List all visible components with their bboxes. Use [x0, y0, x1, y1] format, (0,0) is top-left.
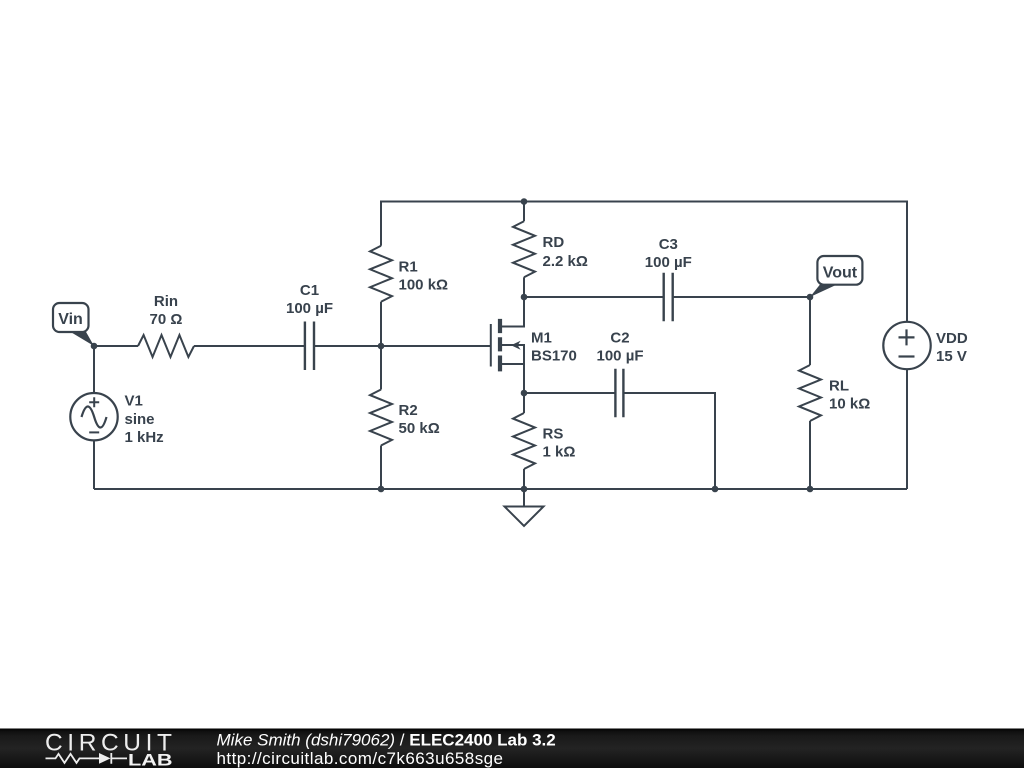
node gate — [378, 343, 385, 350]
wire R2 bottom — [380, 446, 382, 490]
svg-text:R1: R1 — [399, 258, 418, 275]
svg-text:LAB: LAB — [128, 751, 173, 768]
wire V1 bottom — [93, 440, 95, 489]
svg-text:70 Ω: 70 Ω — [150, 311, 183, 328]
capacitor C1 — [305, 322, 314, 371]
wire VDD bottom — [906, 369, 908, 489]
svg-text:15 V: 15 V — [936, 348, 967, 365]
svg-text:1 kHz: 1 kHz — [125, 429, 164, 446]
resistor Rin — [138, 335, 194, 357]
svg-text:100 kΩ: 100 kΩ — [399, 276, 449, 293]
node C2 bottom — [712, 486, 719, 493]
svg-text:2.2 kΩ: 2.2 kΩ — [543, 253, 588, 270]
wire RD top — [523, 202, 525, 222]
svg-text:Vout: Vout — [823, 265, 858, 282]
wire R1 bottom — [380, 302, 382, 346]
wire Rin to C1 — [194, 345, 305, 347]
flag Vin — [53, 303, 94, 346]
wire C2 right — [623, 393, 715, 489]
wire input row left — [94, 345, 138, 347]
svg-text:sine: sine — [125, 411, 155, 428]
wire C2 left — [524, 392, 615, 394]
wire RL bottom — [809, 421, 811, 489]
node Vin — [91, 343, 98, 350]
node ground — [521, 486, 528, 493]
wire V1 top — [93, 346, 95, 393]
capacitor C2 — [615, 369, 623, 418]
svg-text:C1: C1 — [300, 282, 319, 299]
wire RS bottom — [523, 469, 525, 489]
source VDD — [883, 322, 930, 369]
wire C3 to Vout — [673, 296, 810, 298]
node Vout — [807, 294, 814, 301]
svg-text:RS: RS — [543, 426, 564, 443]
source V1 — [70, 393, 117, 440]
resistor RL — [799, 365, 821, 421]
wire RS top — [523, 393, 525, 413]
svg-text:M1: M1 — [531, 329, 552, 346]
svg-text:50 kΩ: 50 kΩ — [399, 420, 440, 437]
capacitor C3 — [664, 273, 673, 322]
transistor M1 — [491, 297, 524, 393]
svg-text:C2: C2 — [610, 330, 629, 347]
wire R2 top — [380, 346, 382, 390]
svg-text:100 µF: 100 µF — [645, 254, 692, 271]
svg-text:Rin: Rin — [154, 293, 178, 310]
svg-text:100 µF: 100 µF — [597, 348, 644, 365]
node top rail — [521, 198, 528, 205]
svg-text:VDD: VDD — [936, 330, 968, 347]
resistor RD — [513, 221, 535, 277]
resistor R2 — [370, 390, 392, 446]
node R2 bottom — [378, 486, 385, 493]
wire drain row left — [524, 296, 664, 298]
node drain — [521, 294, 528, 301]
node RL bottom — [807, 486, 814, 493]
wire C1 to gate — [314, 345, 490, 347]
svg-text:Mike Smith (dshi79062) / ELEC2: Mike Smith (dshi79062) / ELEC2400 Lab 3.… — [217, 730, 556, 749]
svg-text:Vin: Vin — [58, 311, 83, 328]
svg-text:100 µF: 100 µF — [286, 300, 333, 317]
resistor RS — [513, 413, 535, 469]
svg-text:RL: RL — [829, 378, 849, 395]
svg-text:http://circuitlab.com/c7k663u6: http://circuitlab.com/c7k663u658sge — [217, 749, 504, 768]
svg-text:R2: R2 — [399, 402, 418, 419]
wire bottom rail — [94, 488, 907, 490]
flag Vout — [810, 256, 862, 297]
ground — [505, 489, 544, 526]
wire RD bottom — [523, 277, 525, 297]
wire RL top — [809, 297, 811, 365]
resistor R1 — [370, 246, 392, 302]
wire top rail — [381, 202, 907, 322]
svg-text:RD: RD — [543, 234, 565, 251]
footer bar — [0, 729, 1024, 768]
logo CircuitLab — [45, 730, 177, 768]
node source — [521, 390, 528, 397]
svg-text:V1: V1 — [125, 393, 143, 410]
svg-text:BS170: BS170 — [531, 348, 577, 365]
svg-text:1 kΩ: 1 kΩ — [543, 444, 576, 461]
svg-text:C3: C3 — [659, 236, 678, 253]
svg-text:10 kΩ: 10 kΩ — [829, 396, 870, 413]
